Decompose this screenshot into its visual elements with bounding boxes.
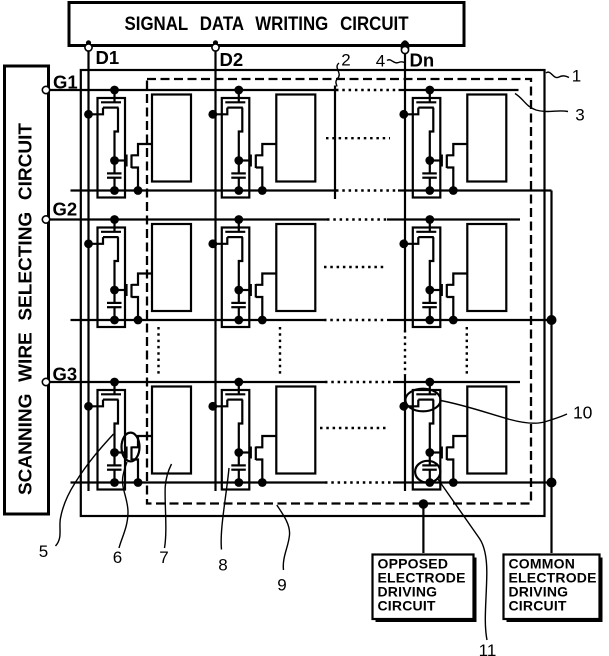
svg-text:11: 11 <box>479 641 497 656</box>
svg-text:SIGNAL DATA WRITING CIRCUIT: SIGNAL DATA WRITING CIRCUIT <box>125 14 409 35</box>
svg-text:G2: G2 <box>53 199 78 220</box>
svg-text:2: 2 <box>341 51 350 70</box>
svg-text:6: 6 <box>113 548 122 567</box>
svg-text:G1: G1 <box>53 72 78 93</box>
svg-text:9: 9 <box>277 576 286 595</box>
svg-text:Dn: Dn <box>410 50 435 71</box>
svg-text:10: 10 <box>573 403 593 423</box>
svg-text:D1: D1 <box>96 47 120 68</box>
svg-text:SCANNING WIRE SELECTING CIRCUI: SCANNING WIRE SELECTING CIRCUIT <box>16 123 36 495</box>
svg-text:CIRCUIT: CIRCUIT <box>509 598 567 614</box>
svg-text:7: 7 <box>159 548 168 567</box>
svg-text:8: 8 <box>218 556 227 575</box>
svg-text:5: 5 <box>39 542 48 561</box>
svg-text:D2: D2 <box>220 49 244 70</box>
svg-text:G3: G3 <box>53 364 78 385</box>
svg-text:CIRCUIT: CIRCUIT <box>378 598 436 614</box>
svg-text:3: 3 <box>575 106 584 125</box>
svg-text:4: 4 <box>376 52 385 71</box>
svg-text:1: 1 <box>572 67 581 86</box>
